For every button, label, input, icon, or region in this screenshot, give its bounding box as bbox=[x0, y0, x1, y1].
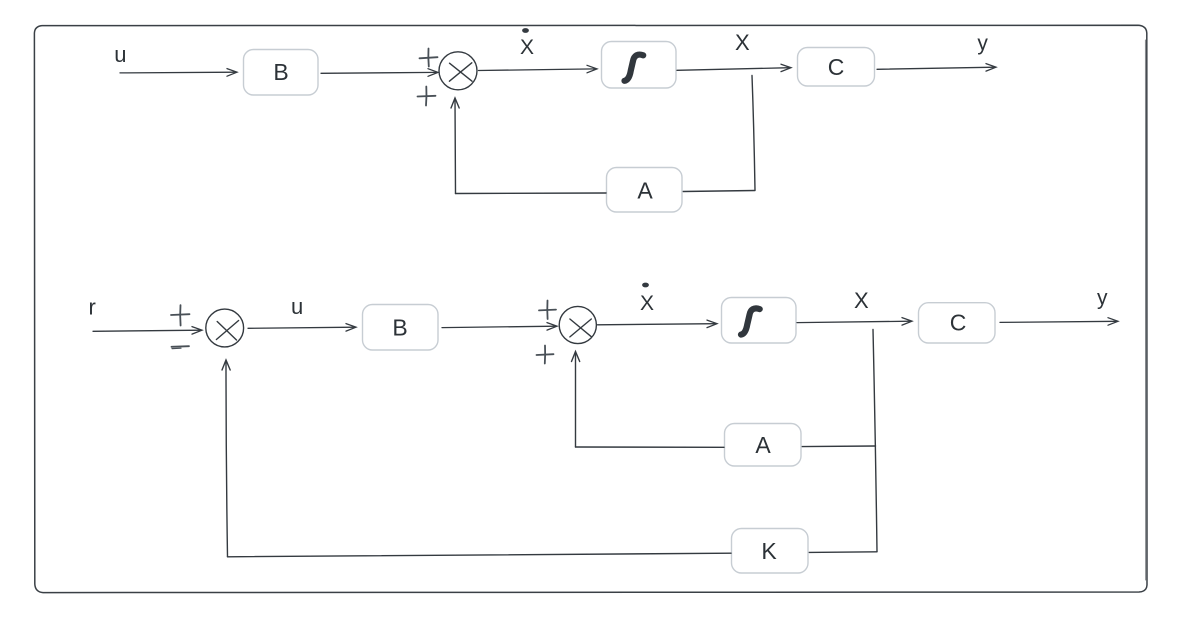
svg-text:y: y bbox=[977, 32, 988, 55]
block B (top) bbox=[244, 50, 319, 96]
wire u to B (top) bbox=[120, 69, 237, 77]
wire integrator to C with arrowhead (top) bbox=[677, 64, 791, 71]
wire r to S2 bbox=[93, 327, 202, 335]
wire C to y output (bottom) bbox=[1000, 318, 1118, 326]
wire A left horizontal (top) bbox=[456, 192, 607, 195]
plus sign lower (top summing junction) bbox=[418, 87, 436, 106]
svg-text:X: X bbox=[854, 288, 869, 313]
summing junction S2 (bottom left) bbox=[206, 309, 244, 347]
block C (bottom) bbox=[919, 303, 996, 343]
summing junction S1 (top) bbox=[439, 52, 477, 90]
svg-text:K: K bbox=[761, 538, 777, 564]
wire S1 to integrator with arrowhead (top) bbox=[479, 65, 598, 73]
block A (top) bbox=[607, 168, 683, 213]
wire B to S3 bbox=[442, 323, 557, 331]
svg-text:r: r bbox=[89, 294, 96, 319]
wire A right horizontal (top) bbox=[683, 191, 755, 192]
block C (top) bbox=[798, 48, 875, 87]
block integrator U1 (top) bbox=[602, 42, 677, 89]
wire K left horizontal (bottom) bbox=[228, 553, 732, 557]
svg-text:B: B bbox=[392, 314, 407, 340]
block K (bottom) bbox=[732, 529, 809, 574]
svg-text:A: A bbox=[637, 177, 653, 203]
svg-text:C: C bbox=[828, 54, 845, 80]
wire K right horizontal (bottom) bbox=[809, 551, 877, 554]
wire S3 to integrator with arrowhead bbox=[598, 320, 718, 328]
svg-text:X: X bbox=[640, 292, 654, 315]
svg-text:B: B bbox=[273, 59, 288, 85]
minus sign (S2) bbox=[172, 346, 190, 348]
wire A left horizontal (bottom) bbox=[576, 446, 725, 448]
plus sign upper (top summing junction) bbox=[420, 49, 438, 67]
wire up into S3 with arrowhead (bottom) bbox=[572, 352, 580, 448]
svg-text:C: C bbox=[950, 310, 967, 336]
plus sign lower (S3) bbox=[537, 346, 554, 364]
svg-text:y: y bbox=[1097, 287, 1108, 310]
wire C to y output (top) bbox=[877, 64, 996, 72]
block integrator U2 (bottom) bbox=[722, 298, 797, 344]
node xdot label (top) bbox=[520, 28, 534, 59]
wire A right horizontal (bottom) bbox=[802, 445, 876, 448]
wire feedback tap down from X (top) bbox=[752, 76, 755, 191]
node xdot label (bottom) bbox=[640, 283, 654, 315]
plus sign (S2) bbox=[171, 305, 190, 325]
block A (bottom) bbox=[725, 424, 802, 467]
wire S2 to B with u label bbox=[248, 324, 356, 332]
svg-text:A: A bbox=[755, 432, 771, 458]
plus sign upper (S3) bbox=[539, 301, 556, 320]
wire B to summing junction (top) bbox=[321, 69, 438, 77]
svg-text:X: X bbox=[735, 30, 750, 55]
block B (bottom) bbox=[363, 305, 439, 351]
wire up into S2 with arrowhead (bottom) bbox=[222, 360, 230, 557]
svg-text:u: u bbox=[291, 294, 303, 319]
summing junction S3 (bottom middle) bbox=[559, 306, 596, 343]
svg-text:X: X bbox=[520, 36, 534, 59]
svg-text:u: u bbox=[114, 42, 126, 67]
wire integrator to C with arrowhead (bottom) bbox=[797, 318, 912, 326]
wire up into S1 with arrowhead (top) bbox=[451, 98, 459, 194]
wire feedback tap down from X to K level (bottom) bbox=[873, 330, 877, 552]
